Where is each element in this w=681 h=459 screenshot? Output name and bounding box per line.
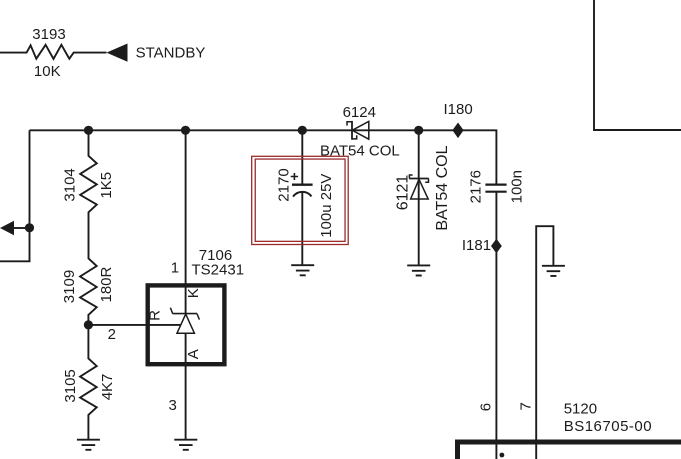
- svg-text:2170: 2170: [276, 168, 293, 201]
- svg-text:3109: 3109: [61, 270, 78, 303]
- svg-text:5120: 5120: [564, 401, 597, 418]
- svg-text:4K7: 4K7: [99, 374, 116, 401]
- svg-text:I180: I180: [444, 101, 473, 118]
- svg-text:3: 3: [169, 397, 177, 414]
- svg-text:180R: 180R: [98, 266, 115, 302]
- svg-text:1K5: 1K5: [98, 172, 115, 199]
- svg-text:BAT54 COL: BAT54 COL: [434, 145, 451, 230]
- svg-text:BS16705-00: BS16705-00: [564, 418, 652, 435]
- svg-text:100u 25V: 100u 25V: [318, 174, 335, 238]
- svg-text:6: 6: [478, 403, 495, 411]
- svg-text:6121: 6121: [394, 175, 411, 211]
- svg-text:R: R: [147, 310, 164, 321]
- svg-text:100n: 100n: [508, 170, 525, 203]
- svg-text:7: 7: [518, 402, 535, 410]
- svg-text:3193: 3193: [32, 26, 65, 43]
- svg-text:3105: 3105: [62, 369, 79, 402]
- svg-text:BAT54 COL: BAT54 COL: [320, 142, 400, 159]
- svg-text:2176: 2176: [467, 170, 484, 203]
- svg-text:A: A: [185, 349, 202, 359]
- svg-text:3104: 3104: [62, 168, 79, 201]
- svg-text:K: K: [185, 288, 202, 298]
- svg-text:1: 1: [171, 259, 179, 276]
- svg-text:6124: 6124: [343, 104, 376, 121]
- svg-text:TS2431: TS2431: [192, 262, 245, 279]
- svg-text:2: 2: [108, 326, 116, 343]
- svg-text:I181: I181: [462, 237, 491, 254]
- svg-text:10K: 10K: [34, 63, 61, 80]
- svg-text:STANDBY: STANDBY: [136, 45, 206, 62]
